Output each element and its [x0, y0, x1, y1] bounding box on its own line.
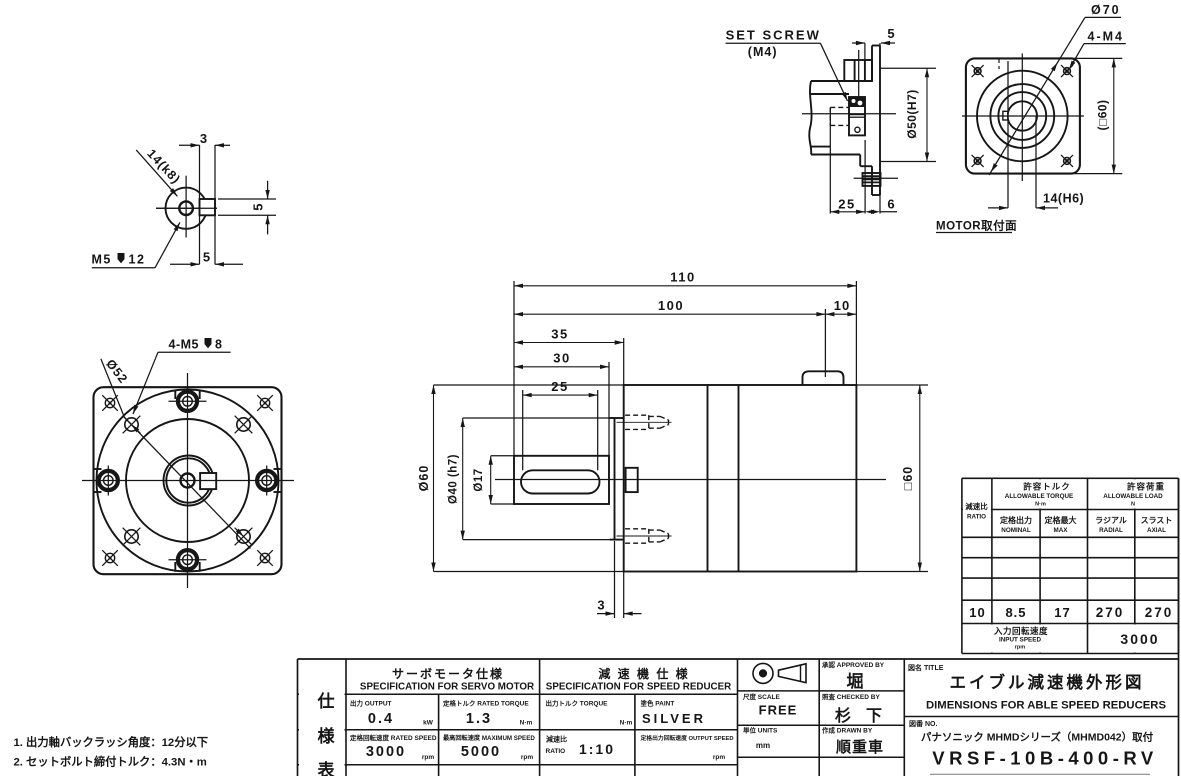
- svg-text:270: 270: [1096, 605, 1125, 620]
- svg-text:減速比: 減速比: [546, 735, 567, 744]
- svg-text:5000: 5000: [461, 744, 501, 760]
- svg-text:車: 車: [868, 738, 883, 756]
- svg-text:ALLOWABLE LOAD: ALLOWABLE LOAD: [1103, 493, 1163, 500]
- svg-text:30: 30: [553, 351, 570, 366]
- svg-text:N·m: N·m: [620, 720, 633, 727]
- svg-text:1:10: 1:10: [579, 741, 615, 757]
- svg-text:6: 6: [887, 197, 894, 212]
- svg-text:5: 5: [251, 204, 266, 211]
- svg-text:8: 8: [215, 338, 222, 352]
- svg-text:Ø60: Ø60: [417, 465, 431, 492]
- svg-text:定格出力回転速度 OUTPUT SPEED: 定格出力回転速度 OUTPUT SPEED: [640, 734, 734, 742]
- svg-text:最高回転速度 MAXIMUM SPEED: 最高回転速度 MAXIMUM SPEED: [443, 734, 535, 742]
- svg-text:VRSF-10B-400-RV: VRSF-10B-400-RV: [932, 748, 1158, 769]
- svg-text:図名 TITLE: 図名 TITLE: [908, 663, 944, 672]
- svg-text:Ø17: Ø17: [473, 468, 485, 491]
- svg-text:0.4: 0.4: [368, 711, 394, 727]
- svg-text:堀: 堀: [847, 672, 864, 691]
- svg-text:表: 表: [318, 760, 336, 776]
- svg-text:mm: mm: [756, 741, 770, 750]
- svg-text:5: 5: [887, 26, 894, 41]
- svg-text:10: 10: [969, 605, 985, 620]
- svg-text:MOTOR取付面: MOTOR取付面: [936, 219, 1017, 233]
- svg-text:尺度 SCALE: 尺度 SCALE: [743, 692, 781, 701]
- svg-text:17: 17: [1054, 605, 1070, 620]
- svg-text:定格トルク RATED TORQUE: 定格トルク RATED TORQUE: [442, 699, 529, 708]
- svg-text:100: 100: [658, 298, 684, 313]
- svg-text:順: 順: [835, 739, 852, 756]
- svg-text:SET SCREW: SET SCREW: [726, 28, 821, 43]
- svg-text:作成 DRAWN BY: 作成 DRAWN BY: [822, 726, 873, 735]
- svg-text:入力回転速度: 入力回転速度: [993, 626, 1048, 636]
- svg-text:3: 3: [200, 131, 207, 146]
- svg-text:5: 5: [203, 250, 210, 265]
- svg-text:様: 様: [318, 726, 336, 746]
- svg-text:N·m: N·m: [1035, 502, 1046, 508]
- svg-text:AXIAL: AXIAL: [1147, 527, 1166, 534]
- svg-text:4-M5: 4-M5: [169, 338, 199, 352]
- svg-text:RATIO: RATIO: [546, 748, 566, 755]
- svg-text:3: 3: [597, 598, 604, 613]
- svg-text:スラスト: スラスト: [1141, 516, 1173, 525]
- svg-text:出力 OUTPUT: 出力 OUTPUT: [350, 699, 392, 708]
- svg-text:承認 APPROVED BY: 承認 APPROVED BY: [822, 660, 885, 669]
- svg-text:RATIO: RATIO: [967, 514, 986, 521]
- svg-text:Ø40 (h7): Ø40 (h7): [448, 454, 460, 504]
- svg-text:照査 CHECKED BY: 照査 CHECKED BY: [822, 692, 880, 701]
- svg-text:重: 重: [852, 738, 867, 756]
- svg-text:RADIAL: RADIAL: [1099, 527, 1123, 534]
- svg-text:1.3: 1.3: [466, 711, 492, 727]
- svg-text:rpm: rpm: [521, 754, 534, 761]
- svg-text:定格出力: 定格出力: [999, 515, 1032, 525]
- svg-text:ラジアル: ラジアル: [1095, 516, 1127, 525]
- svg-text:rpm: rpm: [1015, 645, 1026, 651]
- svg-text:kW: kW: [423, 720, 434, 727]
- svg-text:35: 35: [551, 327, 568, 342]
- svg-text:3000: 3000: [366, 744, 406, 760]
- svg-text:出力トルク TORQUE: 出力トルク TORQUE: [546, 699, 609, 708]
- svg-text:Ø50(H7): Ø50(H7): [905, 89, 919, 139]
- svg-text:仕: 仕: [317, 691, 335, 711]
- svg-text:Ø70: Ø70: [1091, 3, 1121, 17]
- svg-text:定格回転速度 RATED SPEED: 定格回転速度 RATED SPEED: [349, 733, 437, 742]
- svg-text:サーボモータ仕様: サーボモータ仕様: [392, 666, 504, 681]
- svg-text:SPECIFICATION FOR SERVO MOTOR: SPECIFICATION FOR SERVO MOTOR: [360, 682, 534, 693]
- svg-text:270: 270: [1145, 605, 1174, 620]
- svg-text:単位 UNITS: 単位 UNITS: [743, 726, 778, 735]
- svg-text:定格最大: 定格最大: [1044, 515, 1077, 525]
- svg-text:25: 25: [551, 379, 568, 394]
- svg-text:杉: 杉: [835, 706, 851, 725]
- svg-text:N: N: [1131, 502, 1135, 508]
- svg-text:2. セットボルト締付トルク：4.3N・m: 2. セットボルト締付トルク：4.3N・m: [14, 755, 207, 769]
- svg-text:減 速 機 仕 様: 減 速 機 仕 様: [598, 666, 689, 681]
- svg-text:rpm: rpm: [713, 754, 726, 761]
- svg-text:図番 NO.: 図番 NO.: [909, 719, 937, 728]
- svg-text:(M4): (M4): [748, 45, 778, 59]
- svg-text:許容トルク: 許容トルク: [1023, 482, 1071, 492]
- svg-text:エイブル減速機外形図: エイブル減速機外形図: [950, 672, 1145, 692]
- svg-text:14(H6): 14(H6): [1043, 192, 1084, 206]
- svg-text:10: 10: [834, 298, 850, 313]
- svg-text:M5: M5: [92, 253, 112, 267]
- svg-text:□60: □60: [901, 466, 915, 490]
- svg-text:8.5: 8.5: [1005, 605, 1026, 620]
- svg-text:N·m: N·m: [520, 720, 533, 727]
- svg-text:3000: 3000: [1120, 631, 1159, 647]
- svg-text:FREE: FREE: [759, 703, 798, 718]
- svg-text:許容荷重: 許容荷重: [1127, 482, 1165, 492]
- svg-text:DIMENSIONS FOR ABLE SPEED REDU: DIMENSIONS FOR ABLE SPEED REDUCERS: [926, 700, 1166, 712]
- svg-text:4-M4: 4-M4: [1088, 30, 1124, 44]
- svg-text:SILVER: SILVER: [642, 711, 706, 726]
- svg-text:25: 25: [838, 197, 855, 212]
- svg-text:rpm: rpm: [422, 754, 435, 761]
- svg-text:SPECIFICATION FOR SPEED REDUCE: SPECIFICATION FOR SPEED REDUCER: [546, 682, 731, 693]
- svg-text:MAX: MAX: [1054, 527, 1069, 534]
- svg-text:パナソニック MHMDシリーズ（MHMD042）取付: パナソニック MHMDシリーズ（MHMD042）取付: [921, 731, 1154, 744]
- svg-text:110: 110: [670, 270, 695, 285]
- svg-text:1. 出力軸バックラッシ角度：12分以下: 1. 出力軸バックラッシ角度：12分以下: [14, 735, 209, 749]
- svg-text:12: 12: [129, 253, 146, 267]
- svg-text:(□60): (□60): [1096, 99, 1110, 130]
- svg-text:ALLOWABLE TORQUE: ALLOWABLE TORQUE: [1005, 493, 1073, 500]
- svg-text:INPUT SPEED: INPUT SPEED: [999, 637, 1041, 644]
- svg-text:NOMINAL: NOMINAL: [1001, 527, 1031, 534]
- svg-text:減速比: 減速比: [965, 501, 988, 511]
- svg-text:下: 下: [866, 708, 882, 725]
- svg-text:塗色 PAINT: 塗色 PAINT: [641, 699, 675, 708]
